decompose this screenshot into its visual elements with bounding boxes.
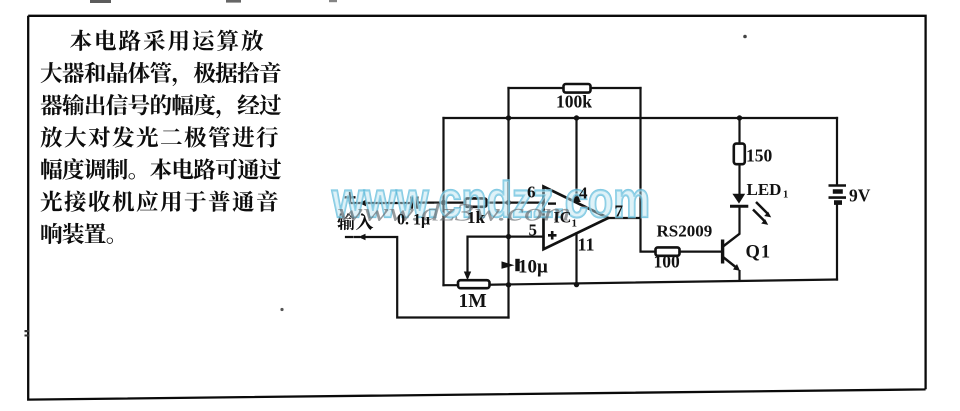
svg-text:1M: 1M bbox=[459, 291, 487, 312]
wire input row bbox=[350, 202, 544, 205]
wire bottom rail bbox=[444, 280, 838, 286]
potentiometer 1M wiper arrow bbox=[464, 272, 471, 281]
wire op-amp pin11 bbox=[575, 233, 577, 284]
op-amp U1 triangle bbox=[544, 187, 609, 250]
wire feedback left vertical bbox=[507, 88, 509, 318]
svg-text:IC: IC bbox=[554, 210, 572, 227]
resistor 100k (feedback) bbox=[564, 84, 591, 93]
capacitor 0.1u plates bbox=[412, 197, 418, 209]
input plus terminal arrow bbox=[359, 200, 366, 207]
input plus sign bbox=[345, 192, 356, 203]
svg-text:7: 7 bbox=[615, 202, 624, 221]
svg-text:LED: LED bbox=[747, 180, 782, 199]
input minus terminal arrow bbox=[358, 234, 365, 241]
svg-text:11: 11 bbox=[578, 235, 595, 255]
wire input minus return bbox=[346, 237, 509, 318]
LED light arrow 1 bbox=[756, 202, 768, 214]
LED D1 cathode bar bbox=[730, 205, 748, 208]
transistor Q1 collector bbox=[723, 234, 740, 247]
svg-text:150: 150 bbox=[746, 146, 773, 166]
wire 150 resistor top bbox=[738, 118, 740, 144]
wire LED to collector bbox=[738, 207, 740, 234]
op-amp minus sign bbox=[548, 202, 556, 204]
Chinese paragraph text bbox=[41, 30, 374, 244]
transistor Q1 base bar bbox=[721, 240, 724, 264]
wire output to base bbox=[608, 218, 723, 252]
svg-text:RS2009: RS2009 bbox=[657, 222, 713, 241]
capacitor 10u (electrolytic on vertical wire) bbox=[502, 261, 515, 268]
wire left vertical (top rail to bottom rail) bbox=[442, 118, 444, 285]
svg-text:6: 6 bbox=[527, 183, 536, 202]
potentiometer 1M body bbox=[458, 280, 490, 288]
wire feedback right vertical bbox=[639, 88, 641, 218]
svg-text:1: 1 bbox=[783, 190, 788, 201]
svg-text:5: 5 bbox=[529, 221, 538, 240]
svg-text:1: 1 bbox=[572, 218, 578, 230]
resistor 150 (LED) bbox=[734, 144, 745, 165]
svg-text:4: 4 bbox=[579, 184, 588, 203]
wire pin5 row from pot wiper bbox=[468, 237, 544, 277]
op-amp pin4 arrow bbox=[572, 192, 581, 203]
wire battery branch lower bbox=[836, 205, 838, 280]
svg-text:10μ: 10μ bbox=[518, 257, 548, 278]
LED light arrow 2 bbox=[753, 210, 765, 222]
resistor 1k (input) bbox=[465, 198, 487, 206]
svg-text:100k: 100k bbox=[556, 92, 592, 112]
svg-text:Q1: Q1 bbox=[746, 243, 772, 263]
svg-text:9V: 9V bbox=[849, 186, 871, 206]
resistor 100 (base) bbox=[656, 247, 680, 255]
wire op-amp pin4 supply bbox=[575, 118, 577, 202]
wire feedback top row bbox=[509, 87, 641, 89]
op-amp plus sign bbox=[548, 231, 557, 240]
wire battery branch upper bbox=[836, 118, 838, 184]
transistor Q1 emitter bbox=[723, 257, 738, 269]
wire top rail bbox=[444, 117, 838, 119]
wire 150 to LED bbox=[738, 165, 740, 194]
junction dots bbox=[441, 200, 446, 205]
scan specks bbox=[90, 0, 111, 3]
LED D1 triangle bbox=[732, 194, 745, 204]
svg-text:100: 100 bbox=[654, 252, 681, 272]
battery B1 plates bbox=[829, 186, 847, 198]
svg-text:0. 1μ: 0. 1μ bbox=[397, 212, 430, 229]
svg-text:1k: 1k bbox=[467, 208, 486, 227]
